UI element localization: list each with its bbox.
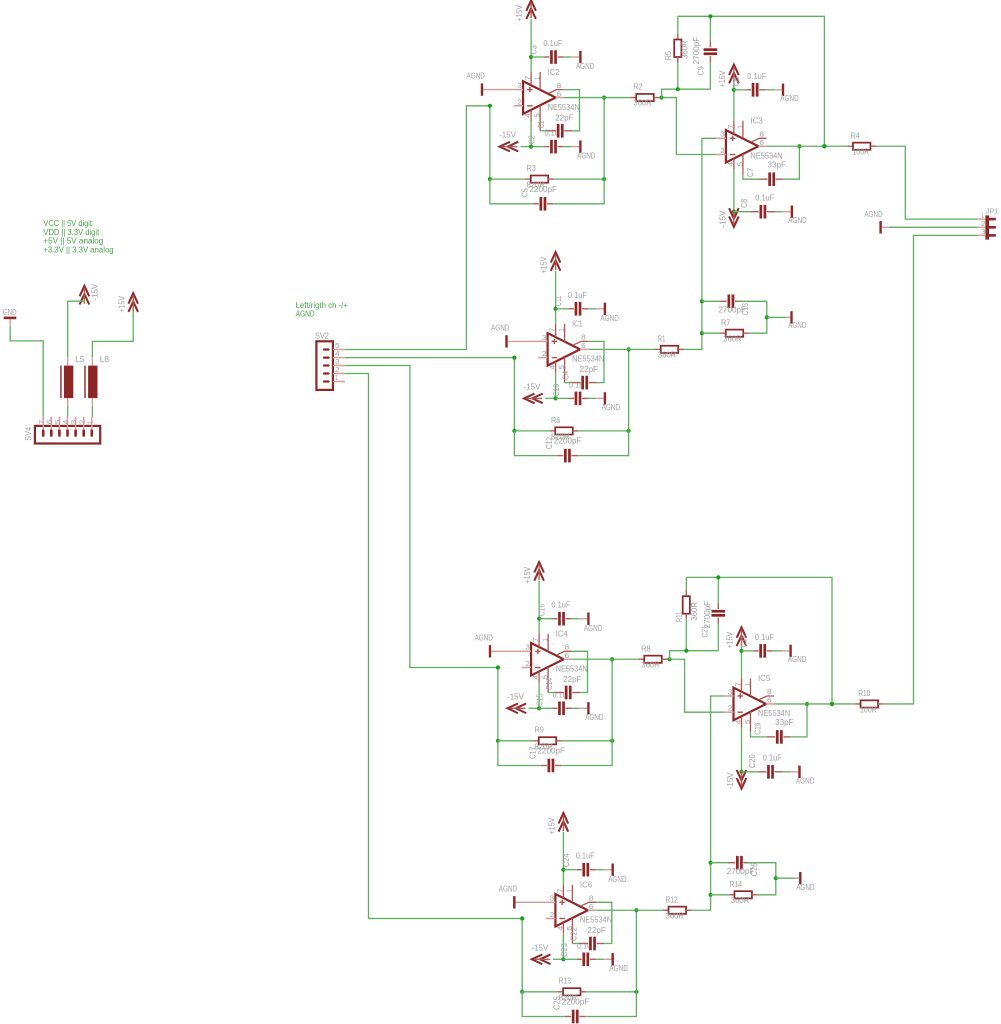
IC6 pin 5 [571, 918, 573, 944]
IC1 pin 2 stub [538, 357, 548, 359]
wire [686, 577, 832, 704]
svg-text:-15V: -15V [531, 942, 548, 952]
svg-text:AGND: AGND [600, 313, 618, 323]
svg-text:NE5534N: NE5534N [580, 915, 612, 925]
+15V supply IC6 [546, 813, 568, 835]
svg-text:R5: R5 [663, 51, 673, 60]
wire [345, 106, 490, 350]
svg-text:3: 3 [542, 333, 547, 342]
IC5 pin 6 stub [766, 703, 775, 705]
capacitor C24 0.1uF [561, 851, 612, 877]
junction [739, 649, 743, 653]
junction [774, 876, 778, 880]
svg-text:22pF: 22pF [555, 112, 573, 122]
+15V supply IC3 [717, 65, 739, 88]
op-amp IC3 [726, 130, 759, 163]
IC3 pin 1 [742, 121, 744, 139]
svg-text:360R: 360R [723, 333, 741, 343]
svg-text:3: 3 [550, 894, 555, 903]
svg-text:R6: R6 [551, 415, 560, 425]
AGND [475, 632, 522, 657]
IC1 pin 5 [564, 357, 566, 383]
capacitor C22 22pF [568, 902, 611, 950]
junction [627, 429, 631, 433]
IC6 pin 8 [581, 902, 596, 905]
+15V supply left [116, 293, 138, 313]
wire [345, 357, 515, 359]
wire [489, 106, 491, 179]
capacitor C8 0.1uF [734, 192, 791, 218]
IC5 pin labels [728, 682, 772, 724]
IC3 pin 4 [733, 159, 735, 170]
AGND [576, 51, 594, 71]
junction [634, 990, 638, 994]
AGND [795, 872, 814, 892]
wire [538, 619, 540, 634]
svg-text:AGND: AGND [584, 623, 602, 633]
wire [545, 397, 556, 399]
svg-text:2: 2 [550, 910, 555, 919]
wire [662, 89, 711, 97]
-15V supply IC6 [531, 942, 550, 964]
wire [741, 651, 743, 679]
IC4 pin 1 [547, 634, 549, 652]
svg-text:100R: 100R [860, 704, 877, 714]
wire [345, 366, 498, 668]
resistor R11 360R [674, 577, 699, 650]
junction [496, 665, 500, 669]
svg-text:+15V: +15V [116, 296, 126, 313]
AGND [787, 311, 807, 330]
junction [739, 770, 743, 774]
svg-text:C26: C26 [749, 862, 759, 876]
svg-text:NE5534N: NE5534N [556, 664, 588, 674]
IC1 value NE5534N [572, 354, 604, 364]
wire [92, 311, 133, 357]
wire [521, 146, 532, 148]
junction [700, 331, 704, 335]
svg-text:4: 4 [726, 162, 735, 167]
capacitor C6 0.1uF [731, 71, 782, 97]
IC4 pin 3 stub [522, 650, 532, 652]
capacitor C26 2700pF [711, 856, 776, 878]
IC3 pin 6 stub [758, 145, 767, 147]
IC4 pin 6 stub [564, 658, 573, 660]
junction [797, 144, 801, 148]
junction [561, 868, 565, 872]
svg-text:R9: R9 [535, 725, 544, 735]
-15V supply IC2 [499, 130, 518, 152]
junction [822, 144, 826, 148]
junction [488, 177, 492, 181]
wire [562, 934, 564, 960]
wire [529, 707, 540, 709]
svg-text:6: 6 [581, 341, 586, 350]
AGND [796, 766, 814, 786]
svg-text:C1: C1 [536, 120, 546, 128]
junction [561, 957, 565, 961]
svg-text:AGND: AGND [608, 874, 626, 884]
capacitor C18 0.1uF [739, 632, 790, 658]
svg-text:C19: C19 [753, 722, 763, 734]
svg-text:+15V: +15V [514, 5, 524, 22]
capacitor C19 33pF [751, 704, 808, 744]
svg-text:1: 1 [565, 889, 574, 892]
svg-text:4: 4 [523, 113, 532, 118]
svg-text:7: 7 [734, 682, 743, 687]
svg-text:100R: 100R [852, 147, 869, 157]
capacitor C5 2200pF [490, 179, 604, 211]
svg-text:1: 1 [533, 77, 542, 80]
wire [530, 121, 532, 147]
wire [538, 581, 540, 619]
AGND [602, 392, 620, 412]
svg-text:2: 2 [728, 704, 733, 713]
AGND [788, 645, 806, 664]
svg-text:R1: R1 [658, 334, 666, 344]
svg-text:360R: 360R [689, 602, 699, 620]
svg-text:1: 1 [557, 329, 566, 332]
svg-text:C11: C11 [553, 295, 563, 306]
-15V supply IC1 [524, 381, 543, 403]
svg-text:IC2: IC2 [548, 67, 561, 77]
svg-text:22pF: 22pF [563, 674, 581, 684]
IC2 pin 3 stub [514, 89, 524, 91]
op-amp IC6 [555, 894, 588, 927]
wire [564, 97, 631, 99]
junction [830, 702, 834, 706]
svg-text:+3.3V || 3.3V analog: +3.3V || 3.3V analog [43, 245, 113, 254]
net label +5V [43, 237, 103, 246]
IC4 pin 8 [557, 651, 572, 654]
junction [732, 210, 736, 214]
inductor L5 [61, 354, 85, 406]
junction [709, 893, 713, 897]
svg-text:R4: R4 [851, 130, 860, 140]
IC5 pin 5 [750, 712, 752, 732]
svg-text:1: 1 [735, 125, 744, 128]
op-amp IC1 [548, 333, 581, 366]
svg-text:C12: C12 [544, 437, 554, 449]
wire [562, 832, 564, 870]
capacitor C17 2200pF [498, 741, 612, 773]
svg-text:C10: C10 [551, 384, 561, 396]
IC4 pin 4 [538, 672, 540, 683]
svg-text:AGND: AGND [577, 150, 595, 160]
svg-text:22pF: 22pF [580, 364, 598, 374]
wire [603, 98, 605, 180]
resistor R7 360R [702, 317, 767, 343]
IC5 pin 1 [750, 678, 752, 696]
IC1 pin 3 stub [538, 340, 548, 342]
svg-text:C22: C22 [568, 927, 578, 941]
svg-text:360R: 360R [731, 895, 749, 905]
svg-text:360R: 360R [658, 350, 676, 360]
svg-text:AGND: AGND [491, 322, 509, 332]
IC1 pin labels [542, 328, 586, 370]
IC6 pin 3 stub [546, 901, 556, 903]
connector JP1 [981, 207, 998, 240]
svg-text:AGND: AGND [780, 93, 798, 103]
IC6 value NE5534N [580, 915, 612, 925]
svg-text:R2: R2 [633, 82, 642, 92]
svg-text:-15V: -15V [725, 772, 735, 789]
capacitor C11 0.1uF [553, 290, 604, 316]
svg-text:C3: C3 [529, 45, 539, 54]
wire [562, 870, 564, 885]
svg-text:0.1uF: 0.1uF [551, 600, 570, 610]
svg-text:C5: C5 [519, 188, 529, 197]
capacitor C14 22pF [544, 651, 587, 699]
IC3 pin 2 stub [716, 154, 726, 156]
svg-text:IC6: IC6 [580, 880, 593, 890]
svg-text:C20: C20 [747, 754, 757, 768]
svg-text:3: 3 [517, 81, 522, 90]
wire [978, 226, 986, 228]
wire [628, 349, 630, 431]
svg-text:1: 1 [85, 421, 94, 424]
svg-text:6: 6 [565, 651, 570, 660]
svg-text:6: 6 [557, 89, 562, 98]
capacitor C10 0.1uF [551, 379, 604, 405]
AGND [585, 702, 603, 722]
svg-text:Left/rigth ch -/+: Left/rigth ch -/+ [296, 301, 349, 310]
svg-text:7: 7 [726, 124, 735, 129]
svg-text:C2: C2 [527, 135, 537, 144]
wire [978, 218, 986, 220]
IC5 pin 4 [741, 716, 743, 727]
IC2 value NE5534N [548, 102, 580, 112]
-15V supply IC5 [725, 770, 746, 789]
connector SV4 [23, 417, 100, 444]
wire [497, 668, 499, 741]
IC2 pin 2 stub [514, 105, 524, 107]
svg-text:AGND: AGND [467, 71, 485, 81]
-15V supply left [80, 283, 100, 304]
-15V supply IC3 [718, 208, 739, 227]
junction [554, 396, 558, 400]
svg-text:AGND: AGND [788, 320, 806, 330]
IC2 pin labels [517, 76, 561, 118]
wire [67, 406, 69, 417]
AGND [788, 206, 806, 226]
junction [520, 990, 524, 994]
IC6 label [580, 880, 593, 890]
junction [602, 95, 606, 99]
junction [520, 916, 524, 920]
IC5 pin 8 [760, 696, 775, 699]
svg-text:2: 2 [720, 146, 725, 155]
svg-text:AGND: AGND [296, 310, 315, 319]
svg-text:-15V: -15V [718, 210, 728, 227]
IC3 label [750, 116, 763, 126]
svg-text:7: 7 [548, 328, 557, 333]
svg-text:4: 4 [531, 675, 540, 680]
IC6 pin 1 [571, 885, 573, 903]
IC5 pin 3 stub [724, 695, 734, 697]
svg-text:L8: L8 [100, 354, 110, 364]
capacitor C1 22pF [536, 90, 579, 138]
junction [709, 861, 713, 865]
+15V supply IC4 [522, 562, 544, 584]
junction [512, 356, 516, 360]
wire [68, 300, 85, 358]
capacitor C15 0.1uF [535, 689, 588, 715]
junction [830, 702, 834, 706]
wire [553, 958, 564, 960]
wire [530, 19, 532, 57]
capacitor C2 0.1uF [527, 128, 580, 154]
svg-text:AGND: AGND [796, 775, 814, 785]
IC2 label [548, 67, 561, 77]
svg-text:3: 3 [720, 130, 725, 139]
resistor R5 360R [663, 16, 690, 89]
svg-text:360R: 360R [641, 659, 659, 669]
connector SV2 [315, 330, 345, 390]
svg-text:IC5: IC5 [758, 673, 771, 683]
wire [775, 703, 855, 705]
junction [627, 347, 631, 351]
svg-text:C6: C6 [731, 77, 741, 86]
svg-text:7: 7 [531, 637, 540, 642]
svg-text:+15V: +15V [522, 566, 532, 583]
svg-text:AGND: AGND [585, 712, 603, 722]
IC4 pin 5 [547, 667, 549, 693]
svg-text:R8: R8 [641, 643, 650, 653]
svg-text:IC4: IC4 [556, 629, 569, 639]
wire [513, 358, 515, 431]
wire [678, 16, 825, 146]
capacitor C9 2700pF [691, 16, 717, 89]
resistor R14 360R [711, 878, 776, 905]
AGND [467, 71, 514, 96]
op-amp IC2 [523, 81, 556, 114]
wire [670, 659, 724, 712]
svg-text:L5: L5 [75, 354, 85, 364]
capacitor C25 2200pF [522, 992, 636, 1024]
wire [662, 98, 717, 155]
IC1 label [572, 319, 583, 329]
junction [554, 307, 558, 311]
ground GND [3, 307, 17, 326]
svg-text:4: 4 [548, 365, 557, 370]
junction [716, 575, 720, 579]
wire [589, 348, 656, 350]
svg-text:AGND: AGND [499, 883, 517, 893]
svg-text:-15V: -15V [499, 130, 516, 140]
svg-text:-15V: -15V [507, 691, 524, 701]
svg-text:VDD || 3.3V digit: VDD || 3.3V digit [43, 228, 100, 237]
svg-text:+15V: +15V [725, 631, 735, 648]
svg-text:2: 2 [517, 97, 522, 106]
op-amp IC4 [531, 643, 564, 676]
svg-text:R13: R13 [559, 976, 571, 986]
svg-text:AGND: AGND [576, 61, 594, 71]
resistor R8 360R [639, 643, 668, 669]
wire [876, 146, 977, 219]
svg-text:R3: R3 [527, 163, 536, 173]
svg-text:2700pF: 2700pF [702, 601, 712, 629]
resistor R13 820R [522, 976, 636, 1003]
svg-text:33pF: 33pF [768, 159, 786, 169]
op-amp IC5 [734, 688, 767, 721]
net label AGND [296, 310, 315, 319]
wire [733, 83, 735, 90]
wire [741, 645, 743, 651]
svg-text:+15V: +15V [546, 817, 556, 834]
svg-text:-15V: -15V [90, 283, 100, 300]
svg-text:0.1uF: 0.1uF [568, 290, 587, 300]
svg-text:360R: 360R [666, 910, 684, 920]
IC6 pin 7 [562, 885, 564, 898]
svg-text:C13: C13 [740, 303, 750, 315]
svg-text:2200pF: 2200pF [529, 184, 557, 194]
svg-text:+15V: +15V [539, 256, 549, 273]
svg-text:C23: C23 [559, 943, 569, 957]
capacitor C12 2200pF [514, 431, 628, 463]
junction [668, 657, 672, 661]
svg-text:C18: C18 [739, 635, 749, 647]
AGND [499, 883, 546, 908]
svg-text:-15V: -15V [524, 381, 541, 391]
svg-text:3: 3 [525, 643, 530, 652]
IC5 label [758, 673, 771, 683]
svg-text:VCC || 5V digit: VCC || 5V digit [43, 219, 92, 228]
wire [767, 145, 847, 147]
svg-text:0.1uF: 0.1uF [543, 38, 562, 48]
resistor R1 360R [655, 334, 684, 360]
junction [708, 14, 712, 18]
svg-text:SV2: SV2 [315, 330, 329, 340]
svg-text:2700pF: 2700pF [691, 37, 701, 65]
svg-text:33pF: 33pF [775, 717, 793, 727]
capacitor C16 0.1uF [537, 600, 588, 626]
svg-text:2200pF: 2200pF [554, 436, 582, 446]
svg-text:0.1uF: 0.1uF [763, 752, 782, 762]
junction [765, 315, 769, 319]
svg-text:JP1: JP1 [986, 207, 998, 216]
wire [635, 910, 637, 992]
junction [529, 55, 533, 59]
net label VCC [43, 219, 92, 228]
svg-text:R12: R12 [666, 894, 678, 904]
capacitor C21 2700pF [699, 577, 725, 650]
junction [805, 702, 809, 706]
svg-text:1: 1 [541, 638, 550, 641]
junction [610, 657, 614, 661]
svg-text:C17: C17 [527, 747, 537, 759]
junction [634, 908, 638, 912]
junction [822, 144, 826, 148]
svg-text:SV4: SV4 [23, 427, 33, 441]
IC2 pin 5 [539, 105, 541, 131]
svg-text:R7: R7 [721, 318, 730, 328]
svg-text:C21: C21 [699, 625, 709, 637]
svg-text:6: 6 [589, 902, 594, 911]
junction [732, 88, 736, 92]
IC2 pin 7 [530, 72, 532, 85]
wire [978, 234, 986, 236]
junction [496, 739, 500, 743]
wire [345, 374, 522, 919]
capacitor C4 22pF [561, 341, 604, 389]
svg-text:2: 2 [525, 659, 530, 668]
IC3 pin 5 [742, 154, 744, 174]
AGND [600, 303, 618, 323]
wire [767, 316, 787, 318]
svg-text:4: 4 [555, 926, 564, 931]
inductor L8 [85, 354, 109, 406]
